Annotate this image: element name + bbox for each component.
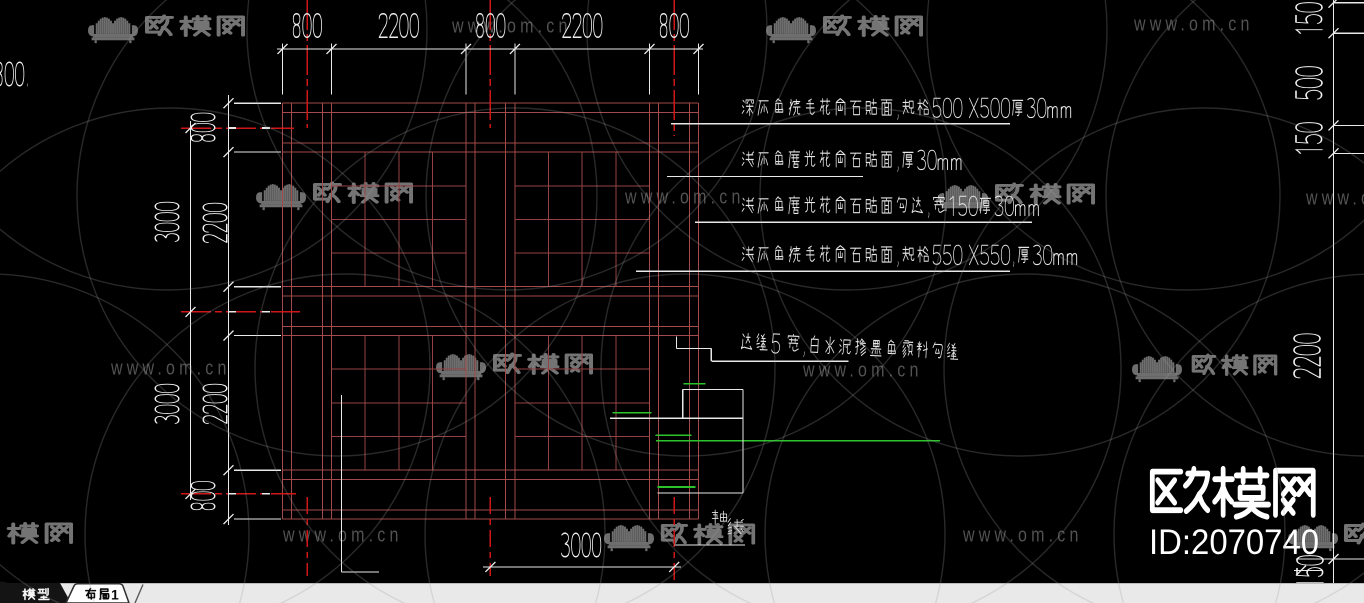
top dim label 800 (1): [293, 14, 321, 38]
axis label leader: [675, 544, 745, 546]
watermark www row D right: [962, 524, 1082, 546]
leader line note 1: [671, 123, 1010, 125]
right dim label 2200: [1294, 334, 1320, 378]
site id text: [1149, 523, 1319, 562]
leader line note 3: [695, 221, 1032, 223]
watermark www row C mid-right: [802, 359, 922, 381]
axis centerline vertical 2 top: [489, 0, 491, 128]
clipped dim text 800. top-left: [0, 62, 28, 86]
joint note step leader: [677, 337, 849, 362]
bay 550x550 tile grids: [332, 152, 650, 470]
layout1 tab: [66, 584, 143, 603]
watermark partial sofa+logo row D far-right: [1288, 524, 1364, 551]
left dim label 3000 lower: [155, 384, 179, 423]
axis label text (zhou xian): [712, 510, 743, 534]
watermark www row B mid: [624, 186, 744, 208]
watermark sofa+logo row A right: [766, 16, 921, 43]
watermark sofa+logo row B left: [256, 183, 411, 210]
leader line note 4: [636, 270, 1010, 272]
axis centerline vertical 2 bottom: [489, 497, 491, 576]
left dim label 3000 upper: [155, 202, 179, 241]
top dimension line: [277, 44, 704, 95]
left dim label 800 bottom: [191, 481, 215, 509]
watermark www row C left: [110, 357, 230, 379]
left dim label 800 top: [191, 113, 215, 141]
axis centerline horizontal 2: [181, 311, 300, 313]
top dim label 800 (2): [477, 14, 505, 38]
watermark www row B edge: [1305, 187, 1364, 209]
top dim label 2200 (2): [563, 14, 602, 38]
axis centerline horizontal 1: [181, 127, 294, 129]
axis centerline vertical 3 top: [673, 0, 675, 136]
svg-text:ID:2070740: ID:2070740: [1149, 523, 1319, 562]
right dim label 150 (2): [1296, 123, 1322, 154]
watermark sofa+logo row D mid: [604, 524, 753, 551]
watermark www row A mid: [451, 15, 571, 37]
svg-text:www.om.cn: www.om.cn: [110, 357, 230, 379]
note 2: light gray polished granite 30mm: [742, 150, 961, 171]
green joint marks: [613, 384, 940, 487]
left dim label 2200 top: [203, 203, 227, 242]
axis centerline horizontal 3: [181, 493, 296, 495]
bottom dim label 3000: [561, 533, 600, 557]
axis centerline vertical 1 top: [306, 0, 308, 128]
note 5: 5 wide joint white cement with black pigment: [741, 332, 958, 364]
L-shaped section leader bottom-left: [341, 395, 379, 572]
right detail dimension line: [1329, 0, 1364, 583]
svg-text:1: 1: [111, 587, 119, 603]
watermark www row A far right: [1133, 13, 1253, 35]
layout tab bar: [0, 583, 1364, 603]
watermark sofa+logo row B right: [938, 184, 1093, 211]
left inner dimension line: [224, 95, 282, 525]
right dim label 500: [1296, 67, 1322, 99]
svg-text:www.om.cn: www.om.cn: [282, 524, 402, 546]
watermark partial logo row D far-left: [9, 524, 71, 544]
left outer dimension line (3000 chain): [186, 121, 196, 500]
site logo big (oumowang): [1152, 469, 1313, 517]
note 4: light gray flamed granite 550x550 30mm: [742, 245, 1077, 266]
watermark sofa+logo row A left: [88, 16, 243, 43]
right dim label 150 (1): [1296, 3, 1322, 34]
right corner dimension bits: [1294, 559, 1364, 576]
note 3: light gray polished granite edging 150 wide 30mm: [742, 196, 1038, 218]
leader line note 2: [667, 176, 863, 178]
svg-text:www.om.cn: www.om.cn: [451, 15, 571, 37]
note 1: dark gray flamed granite 500x500 30mm: [742, 98, 1071, 119]
axis centerline vertical 3 bottom: [673, 497, 675, 581]
left dim label 2200 bottom: [203, 384, 227, 423]
paving plan band grid: [283, 103, 699, 519]
detail box lines right of plan: [610, 390, 743, 493]
top dim label 2200 (1): [379, 14, 418, 38]
svg-text:www.om.cn: www.om.cn: [1305, 187, 1364, 209]
axis centerline vertical 1 bottom: [306, 497, 308, 576]
model tab (active, dark): [0, 582, 71, 603]
right dim label 150 (3): [1297, 556, 1323, 587]
bottom dimension line 3000: [483, 562, 681, 572]
top dim label 800 (3): [660, 14, 688, 38]
svg-text:www.om.cn: www.om.cn: [962, 524, 1082, 546]
watermark www row D left: [282, 524, 402, 546]
svg-text:www.om.cn: www.om.cn: [1133, 13, 1253, 35]
watermark sofa+logo row C right: [1132, 355, 1276, 382]
watermark sofa+logo row C mid: [436, 354, 591, 380]
